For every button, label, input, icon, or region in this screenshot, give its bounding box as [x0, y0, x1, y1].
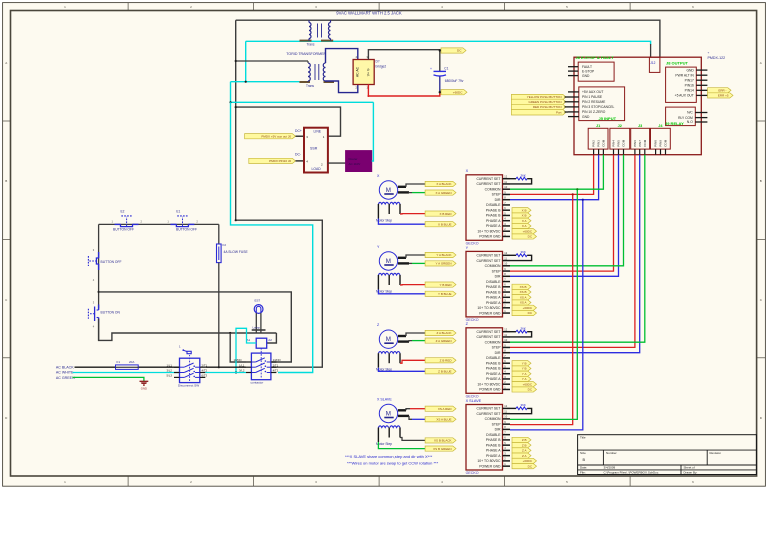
svg-text:DISABLE: DISABLE	[486, 433, 501, 437]
motor Y	[376, 245, 400, 294]
svg-text:Z B RED: Z B RED	[440, 358, 453, 362]
svg-text:AC BLACK: AC BLACK	[56, 365, 74, 369]
svg-text:RLY COM: RLY COM	[678, 116, 693, 120]
svg-text:F1: F1	[117, 360, 121, 364]
wires flags to J5 pins	[565, 97, 569, 112]
svg-text:PIN 10 Z-ZERO: PIN 10 Z-ZERO	[582, 110, 606, 114]
wire motor Z lead B2	[378, 368, 425, 372]
svg-text:J2: J2	[618, 124, 622, 128]
wire left rail	[98, 224, 100, 308]
flag +60DC	[512, 382, 537, 387]
svg-text:J9 RELAY: J9 RELAY	[665, 121, 684, 126]
svg-text:+: +	[430, 67, 432, 71]
motor Z	[376, 323, 400, 372]
svg-text:10+ TO 80VDC: 10+ TO 80VDC	[477, 459, 501, 463]
svg-text:PHASE B: PHASE B	[486, 290, 501, 294]
wire motor X SLAVE lead B1	[400, 438, 425, 441]
svg-text:Y: Y	[466, 246, 469, 250]
svg-text:Y A GREEN: Y A GREEN	[436, 262, 452, 266]
svg-text:DIR: DIR	[495, 428, 501, 432]
wire button-on down with step	[99, 319, 277, 341]
svg-text:PIN4: PIN4	[612, 140, 616, 147]
svg-text:FAULT: FAULT	[582, 65, 592, 69]
svg-text:COMMON: COMMON	[485, 417, 501, 421]
svg-text:36K: 36K	[521, 250, 526, 254]
svg-text:Z A: Z A	[522, 449, 527, 453]
svg-text:D?: D?	[376, 60, 380, 64]
svg-text:Number: Number	[606, 451, 617, 455]
svg-text:XS B: XS B	[520, 285, 527, 289]
connector J9 RELAY sub box	[665, 107, 707, 126]
svg-text:GND: GND	[582, 115, 590, 119]
svg-text:10+ TO 80VDC: 10+ TO 80VDC	[477, 306, 501, 310]
wire cyan toroid primary bottom	[231, 81, 300, 83]
svg-text:ERR -: ERR -	[718, 88, 726, 92]
svg-text:XS B: XS B	[520, 290, 527, 294]
svg-text:M: M	[386, 410, 391, 417]
svg-text:X A GREEN: X A GREEN	[435, 191, 451, 195]
wire SSR pin2 to router outlet	[328, 162, 346, 164]
wire cap bottom to +60DC	[439, 77, 441, 93]
svg-text:Z B BLUE: Z B BLUE	[438, 369, 451, 373]
svg-text:+60DC: +60DC	[523, 306, 533, 310]
wire red J1 to X STEP	[510, 155, 594, 195]
wire motor Z lead B1	[400, 360, 425, 363]
svg-text:DISABLE: DISABLE	[486, 356, 501, 360]
svg-text:X B BLUE: X B BLUE	[438, 222, 452, 226]
svg-text:DISABLE: DISABLE	[486, 203, 501, 207]
connector J3	[631, 124, 650, 155]
fuse F2 4A SLOW FUSE	[217, 224, 249, 262]
svg-text:CURRENT SET: CURRENT SET	[476, 412, 500, 416]
relay SSR U1	[295, 128, 328, 173]
wire green J2 to Y COMMON	[510, 155, 624, 266]
connector FAULT/E-STOP sub box	[568, 62, 614, 81]
svg-text:Trans: Trans	[306, 84, 314, 88]
flag phase Z B	[512, 443, 531, 448]
svg-text:SSR: SSR	[310, 147, 318, 151]
svg-text:9VAC WALLMART WITH 2.5 JACK: 9VAC WALLMART WITH 2.5 JACK	[336, 11, 402, 16]
power flag +60DC	[441, 90, 467, 95]
svg-text:PIN7: PIN7	[638, 140, 642, 147]
wire green X slave COMMON tap	[510, 189, 577, 419]
svg-text:5/L3: 5/L3	[167, 374, 173, 378]
svg-text:Y B: Y B	[522, 367, 527, 371]
svg-text:X SLAVE: X SLAVE	[377, 398, 392, 402]
svg-text:Revision: Revision	[710, 451, 722, 455]
svg-text:J12: J12	[650, 61, 655, 65]
flag phase Z A	[512, 453, 531, 458]
svg-text:GECKO: GECKO	[466, 241, 479, 245]
node junction hot rail T1	[235, 219, 237, 221]
svg-text:GECKO: GECKO	[466, 394, 479, 398]
wire navy toroid secondary top to bridge	[326, 49, 358, 63]
wire green J1 to X COMMON	[510, 155, 603, 190]
flag DC	[512, 387, 537, 392]
wire SSR pin3	[296, 135, 305, 137]
svg-text:J8 OUTPUT: J8 OUTPUT	[666, 61, 689, 66]
flag GREEN PUSH BUTTON	[511, 99, 566, 104]
wire cyan disconnect to contactor	[205, 372, 246, 374]
svg-text:STEP: STEP	[492, 269, 502, 273]
motor X	[376, 174, 400, 223]
wire cyan neutral drop	[245, 41, 247, 81]
svg-text:V+ V-: V+ V-	[367, 68, 371, 76]
svg-text:6/T3: 6/T3	[202, 374, 208, 378]
svg-text:CURRENT SET: CURRENT SET	[476, 259, 500, 263]
svg-text:Y A BLACK: Y A BLACK	[436, 253, 451, 257]
resistor R-Z 36K	[510, 327, 532, 337]
flag phase Z B	[512, 437, 531, 442]
svg-text:3/L2: 3/L2	[239, 369, 245, 373]
contactor coil K1	[247, 338, 273, 348]
svg-text:COM: COM	[622, 139, 626, 147]
wire blue X slave DIR tap	[510, 200, 583, 430]
svg-text:DIR: DIR	[495, 351, 501, 355]
wire motor X lead A1	[398, 186, 406, 188]
flag phase X A	[512, 223, 531, 228]
svg-text:Z A GREEN: Z A GREEN	[436, 339, 452, 343]
wire motor Z lead A1	[398, 335, 406, 337]
svg-text:+60DC: +60DC	[523, 229, 533, 233]
wire left rail lower	[98, 323, 100, 340]
node junction button output	[98, 291, 100, 293]
wire AC white cyan	[73, 372, 180, 374]
wire SSR pin4	[296, 160, 305, 162]
svg-text:PIN 3 STOP/CANCEL: PIN 3 STOP/CANCEL	[582, 105, 615, 109]
svg-text:BUTTON ON: BUTTON ON	[101, 311, 121, 315]
bridge rectifier D1	[353, 55, 386, 89]
flag phase Y A	[512, 371, 531, 376]
node junction hot rail SSR	[235, 106, 237, 108]
svg-text:M: M	[386, 187, 391, 194]
wire cyan A1 to neutral	[236, 328, 256, 372]
node red junction	[367, 95, 369, 97]
svg-text:X: X	[466, 169, 469, 173]
wire motor Y lead B2	[378, 290, 425, 294]
svg-text:N/C: N/C	[687, 111, 693, 115]
node junction A1 neutral	[235, 371, 237, 373]
svg-text:BUTTON OFF: BUTTON OFF	[113, 228, 134, 232]
flag phase XS A	[512, 295, 531, 300]
svg-text:Z A BLACK: Z A BLACK	[436, 331, 451, 335]
motor X SLAVE	[376, 398, 400, 447]
node junction toroid primary	[235, 60, 237, 62]
svg-text:ERR +5: ERR +5	[718, 94, 729, 98]
transformer T1 top	[300, 20, 334, 46]
router outlet (purple box)	[346, 151, 372, 172]
svg-text:AC WHITE: AC WHITE	[56, 371, 74, 375]
svg-text:COMMON: COMMON	[485, 340, 501, 344]
node junctions slave taps	[572, 193, 574, 195]
svg-text:DC: DC	[457, 49, 462, 53]
node junction lamp line	[229, 332, 231, 334]
svg-text:M: M	[386, 336, 391, 343]
wire navy toroid secondary bottom to bridge	[326, 81, 358, 93]
svg-text:GREEN PUSH BUTTON: GREEN PUSH BUTTON	[529, 100, 562, 104]
flag phase Z A	[512, 448, 531, 453]
svg-text:POWER GND: POWER GND	[479, 464, 501, 468]
svg-text:Y A: Y A	[522, 372, 527, 376]
svg-text:A2: A2	[268, 338, 272, 342]
pushbutton S2 BUTTON ON	[88, 301, 120, 329]
flag phase Y B	[512, 361, 531, 366]
svg-text:STEP: STEP	[492, 346, 502, 350]
flag phase X A	[512, 218, 531, 223]
connector J1	[588, 124, 608, 155]
svg-text:Date:: Date:	[580, 466, 587, 470]
svg-text:Z B: Z B	[522, 438, 527, 442]
svg-text:contactor: contactor	[251, 381, 264, 385]
svg-text:J3: J3	[638, 124, 642, 128]
svg-text:Trans: Trans	[307, 42, 315, 46]
flag RED PUSH BUTTON	[511, 104, 566, 109]
flag phase XS A	[512, 300, 531, 305]
wire motor Z lead A2	[398, 340, 409, 342]
svg-text:PIN6: PIN6	[633, 140, 637, 147]
svg-text:AC 110V: AC 110V	[349, 162, 361, 166]
svg-text:PIN5: PIN5	[617, 140, 621, 147]
flag +60DC	[512, 458, 537, 463]
wire green J3 to Z COMMON	[510, 155, 645, 343]
svg-text:10+ TO 80VDC: 10+ TO 80VDC	[477, 382, 501, 386]
svg-text:XS A: XS A	[520, 295, 527, 299]
svg-text:COMMON: COMMON	[485, 264, 501, 268]
svg-text:20A: 20A	[129, 360, 134, 364]
transformer T2 toroid	[299, 63, 334, 88]
svg-text:PIN8: PIN8	[654, 140, 658, 147]
svg-text:+: +	[708, 51, 710, 55]
svg-text:J5 INPUT: J5 INPUT	[599, 116, 617, 121]
svg-text:PIN 2 RESUME: PIN 2 RESUME	[582, 100, 606, 104]
svg-text:A: A	[760, 61, 762, 65]
wire fuse F2 down to AC black	[218, 263, 220, 368]
flag phase XS B	[512, 289, 531, 294]
svg-text:Y B: Y B	[522, 361, 527, 365]
wire black down to 13/NO	[230, 333, 246, 362]
wire latch line to 14/NO	[99, 292, 292, 362]
svg-text:4/T2: 4/T2	[273, 369, 279, 373]
svg-text:PWR ALT IN: PWR ALT IN	[675, 73, 694, 77]
svg-text:Router: Router	[349, 157, 358, 161]
fuse F1 20A	[116, 360, 139, 369]
svg-text:PIN9: PIN9	[659, 140, 663, 147]
wire cyan neutral loop to contactor T2	[231, 102, 313, 372]
svg-text:X A: X A	[522, 219, 527, 223]
flag DC	[512, 310, 537, 315]
svg-text:GECKO: GECKO	[466, 471, 479, 475]
svg-text:Sheet of: Sheet of	[684, 466, 695, 470]
svg-text:PHASE B: PHASE B	[486, 214, 501, 218]
contactor main	[234, 348, 282, 384]
svg-text:CURRENT SET: CURRENT SET	[476, 254, 500, 258]
svg-text:AC GREEN: AC GREEN	[56, 376, 75, 380]
flag phase Y A	[512, 376, 531, 381]
svg-text:PHASE B: PHASE B	[486, 367, 501, 371]
svg-text:XS B BLACK: XS B BLACK	[434, 439, 452, 443]
resistor R-X SLAVE 36K	[510, 403, 532, 413]
svg-text:Y A: Y A	[522, 377, 527, 381]
stepper driver GECKO Y	[466, 246, 510, 322]
svg-text:CURRENT SET: CURRENT SET	[476, 182, 500, 186]
wire motor X lead B2	[378, 219, 425, 225]
flag phase Y B	[512, 366, 531, 371]
title block	[578, 435, 757, 475]
pushbutton S1 BUTTON OFF vertical	[88, 248, 121, 282]
node junction cyan corner	[229, 101, 231, 103]
wire black SSR line tap	[236, 107, 341, 136]
svg-text:X A: X A	[522, 224, 527, 228]
svg-text:Y B RED: Y B RED	[440, 283, 453, 287]
svg-text:E-STOP: E-STOP	[582, 69, 595, 73]
svg-text:CURRENT SET: CURRENT SET	[476, 330, 500, 334]
svg-text:CURRENT SET: CURRENT SET	[476, 177, 500, 181]
wire black contactor T1 loop	[236, 220, 323, 367]
wire blue J3 to Z DIR	[510, 155, 640, 353]
svg-text:***Wires on motor are swap to: ***Wires on motor are swap to get CCW ro…	[347, 461, 439, 466]
svg-text:STEP: STEP	[492, 193, 502, 197]
svg-text:PHASE B: PHASE B	[486, 285, 501, 289]
svg-text:B: B	[760, 179, 762, 183]
svg-text:PHASE A: PHASE A	[486, 449, 501, 453]
svg-text:***X SLAVE share common,step a: ***X SLAVE share common,step and dir wit…	[345, 454, 433, 459]
wire black bridge V+ to DC node	[368, 50, 439, 71]
svg-text:PHASE B: PHASE B	[486, 438, 501, 442]
flag +60DC	[512, 305, 537, 310]
svg-text:Z A: Z A	[522, 454, 527, 458]
svg-text:ES7: ES7	[255, 298, 261, 302]
wire motor X lead B1	[400, 213, 425, 215]
svg-text:10+ TO 80VDC: 10+ TO 80VDC	[477, 229, 501, 233]
wire cyan down-left jog	[231, 82, 374, 103]
flag Port	[511, 109, 566, 115]
svg-text:36K: 36K	[521, 174, 526, 178]
switch disconnect SW	[167, 345, 208, 388]
svg-text:Lamp: Lamp	[253, 325, 261, 329]
svg-text:XS A: XS A	[520, 301, 527, 305]
wire red bridge V- to +60DC node	[368, 85, 439, 97]
svg-text:N.O: N.O	[687, 120, 693, 124]
svg-text:2/T1: 2/T1	[273, 363, 279, 367]
svg-text:C1: C1	[444, 67, 448, 71]
pushbutton E2 BUTTON OFF	[112, 210, 143, 232]
svg-text:XS B GREEN: XS B GREEN	[433, 447, 451, 451]
svg-text:COM: COM	[643, 139, 647, 147]
svg-text:STEP: STEP	[492, 422, 502, 426]
svg-text:Drawn By:: Drawn By:	[684, 470, 698, 474]
connector J12	[649, 57, 660, 72]
svg-text:DISABLE: DISABLE	[486, 280, 501, 284]
resistor R-X 36K	[510, 174, 532, 184]
svg-text:PMDX PIN10 J0: PMDX PIN10 J0	[269, 159, 291, 163]
svg-text:PHASE A: PHASE A	[486, 454, 501, 458]
svg-text:COM: COM	[664, 139, 668, 147]
svg-text:File:: File:	[580, 470, 586, 474]
svg-text:X A BLACK: X A BLACK	[436, 182, 451, 186]
svg-text:LOAD: LOAD	[312, 167, 322, 171]
svg-text:COMMON: COMMON	[485, 187, 501, 191]
svg-text:C:\Program Files\..\POWERBOX.S: C:\Program Files\..\POWERBOX.SchDoc	[604, 470, 659, 474]
svg-text:68000uF 79v: 68000uF 79v	[445, 79, 464, 83]
capacitor C1	[430, 67, 464, 83]
power flag DC	[441, 48, 466, 53]
svg-text:DC+: DC+	[295, 129, 302, 133]
connector J5 INPUT sub box	[568, 87, 625, 121]
node junction cyan	[245, 81, 247, 83]
wire motor Y lead A1	[398, 257, 406, 259]
stepper driver GECKO Z	[466, 322, 510, 398]
svg-text:CURRENT SET: CURRENT SET	[476, 407, 500, 411]
flag DC	[512, 464, 537, 469]
svg-text:A: A	[5, 61, 7, 65]
svg-text:+5 AUX OUT: +5 AUX OUT	[675, 94, 694, 98]
svg-text:Port: Port	[556, 110, 562, 114]
svg-text:36K: 36K	[521, 327, 526, 331]
svg-text:PMDX +5V aux out J0: PMDX +5V aux out J0	[261, 134, 291, 138]
svg-text:3/L2: 3/L2	[167, 369, 173, 373]
svg-text:BUTTON OFF: BUTTON OFF	[176, 228, 197, 232]
svg-text:TORID TRANSFORMER: TORID TRANSFORMER	[286, 52, 326, 56]
svg-text:PHASE B: PHASE B	[486, 361, 501, 365]
svg-text:+60DC: +60DC	[523, 382, 533, 386]
svg-text:XS A BLUE: XS A BLUE	[436, 417, 451, 421]
lamp ES7	[252, 305, 266, 333]
wire motor X lead A2	[398, 191, 409, 193]
svg-text:X SLAVE: X SLAVE	[466, 399, 482, 403]
svg-text:GND: GND	[686, 68, 694, 72]
svg-text:PHASE B: PHASE B	[486, 208, 501, 212]
svg-text:14/NO: 14/NO	[273, 358, 282, 362]
flag phase X B	[512, 208, 531, 213]
ground symbol GND	[140, 381, 149, 390]
svg-text:AC AC: AC AC	[356, 66, 360, 77]
svg-text:3/4/2009: 3/4/2009	[604, 466, 616, 470]
wire motor X SLAVE lead A2	[398, 415, 409, 417]
svg-text:X B RED: X B RED	[439, 212, 452, 216]
wire motor Y lead B1	[400, 284, 425, 286]
connector J2	[610, 124, 630, 155]
flag PMDX PIN10	[249, 158, 296, 163]
svg-text:1/L1: 1/L1	[239, 363, 245, 367]
svg-text:Z B: Z B	[522, 443, 527, 447]
svg-text:GND: GND	[141, 387, 147, 391]
svg-text:B: B	[5, 179, 7, 183]
svg-text:PHASE A: PHASE A	[486, 219, 501, 223]
wire red X slave STEP tap	[510, 194, 573, 424]
flag YELLOW PUSH BUTTON	[511, 94, 566, 99]
wire black hot rail vertical	[235, 20, 237, 220]
wire black J12 drop	[650, 44, 652, 57]
svg-text:PMDX-122: PMDX-122	[708, 56, 726, 60]
wire blue J2 to Y DIR	[510, 155, 619, 277]
svg-text:DIR: DIR	[495, 198, 501, 202]
flag ERR -	[708, 88, 731, 93]
svg-text:13/NO: 13/NO	[234, 358, 243, 362]
svg-text:BUTTON OFF: BUTTON OFF	[101, 260, 122, 264]
svg-text:1/L1: 1/L1	[167, 363, 173, 367]
connector J8 OUTPUT sub box	[666, 61, 708, 103]
flag DC	[512, 234, 537, 239]
breakout board PMDX-122 main box	[574, 57, 701, 155]
node junction F2 tap	[218, 366, 220, 368]
flag +60DC	[512, 229, 537, 234]
wire AC green	[73, 377, 144, 381]
pushbutton E1 BUTTON OFF	[167, 210, 198, 232]
svg-text:X B: X B	[522, 214, 527, 218]
svg-text:PHASE A: PHASE A	[486, 296, 501, 300]
svg-text:PIN 1 PAUSE: PIN 1 PAUSE	[582, 95, 603, 99]
svg-text:POWER GND: POWER GND	[479, 311, 501, 315]
